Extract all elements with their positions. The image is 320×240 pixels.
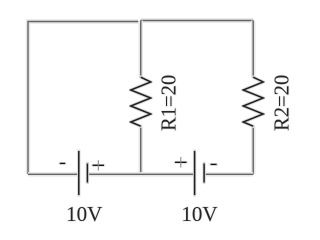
battery B2 minus sign: [211, 163, 217, 166]
wire: bottom right segment: [204, 172, 253, 176]
resistor R2: [243, 77, 263, 126]
wire: top-left + left side of left loop: [28, 22, 138, 175]
resistor R2 value label R2=20: [271, 75, 293, 131]
svg-text:10V: 10V: [181, 202, 217, 226]
battery B2 plus sign: [175, 157, 187, 168]
battery B1 minus sign: [60, 162, 65, 165]
wire: right side lower lead from R2: [251, 126, 255, 174]
resistor R1: [131, 77, 151, 126]
wire: bottom middle segment: [87, 172, 194, 176]
battery B1 voltage label 10V: [66, 202, 102, 226]
wire: middle lower lead from R1: [139, 126, 143, 174]
resistor R1 value label R1=20: [159, 75, 181, 131]
battery B2 long plate: [193, 151, 196, 195]
svg-text:R2=20: R2=20: [271, 75, 293, 131]
svg-text:10V: 10V: [66, 202, 102, 226]
battery B1 plus sign: [93, 160, 104, 170]
wire: right side upper lead to R2: [251, 21, 255, 78]
wire: top of right loop: [141, 18, 254, 22]
battery B2 short plate: [202, 164, 205, 183]
battery B1 short plate: [86, 164, 89, 183]
svg-text:R1=20: R1=20: [159, 75, 181, 131]
wire: bottom left segment: [28, 172, 79, 176]
battery B2 voltage label 10V: [181, 202, 217, 226]
wire: middle upper lead to R1: [139, 21, 143, 78]
battery B1 long plate: [77, 151, 80, 195]
